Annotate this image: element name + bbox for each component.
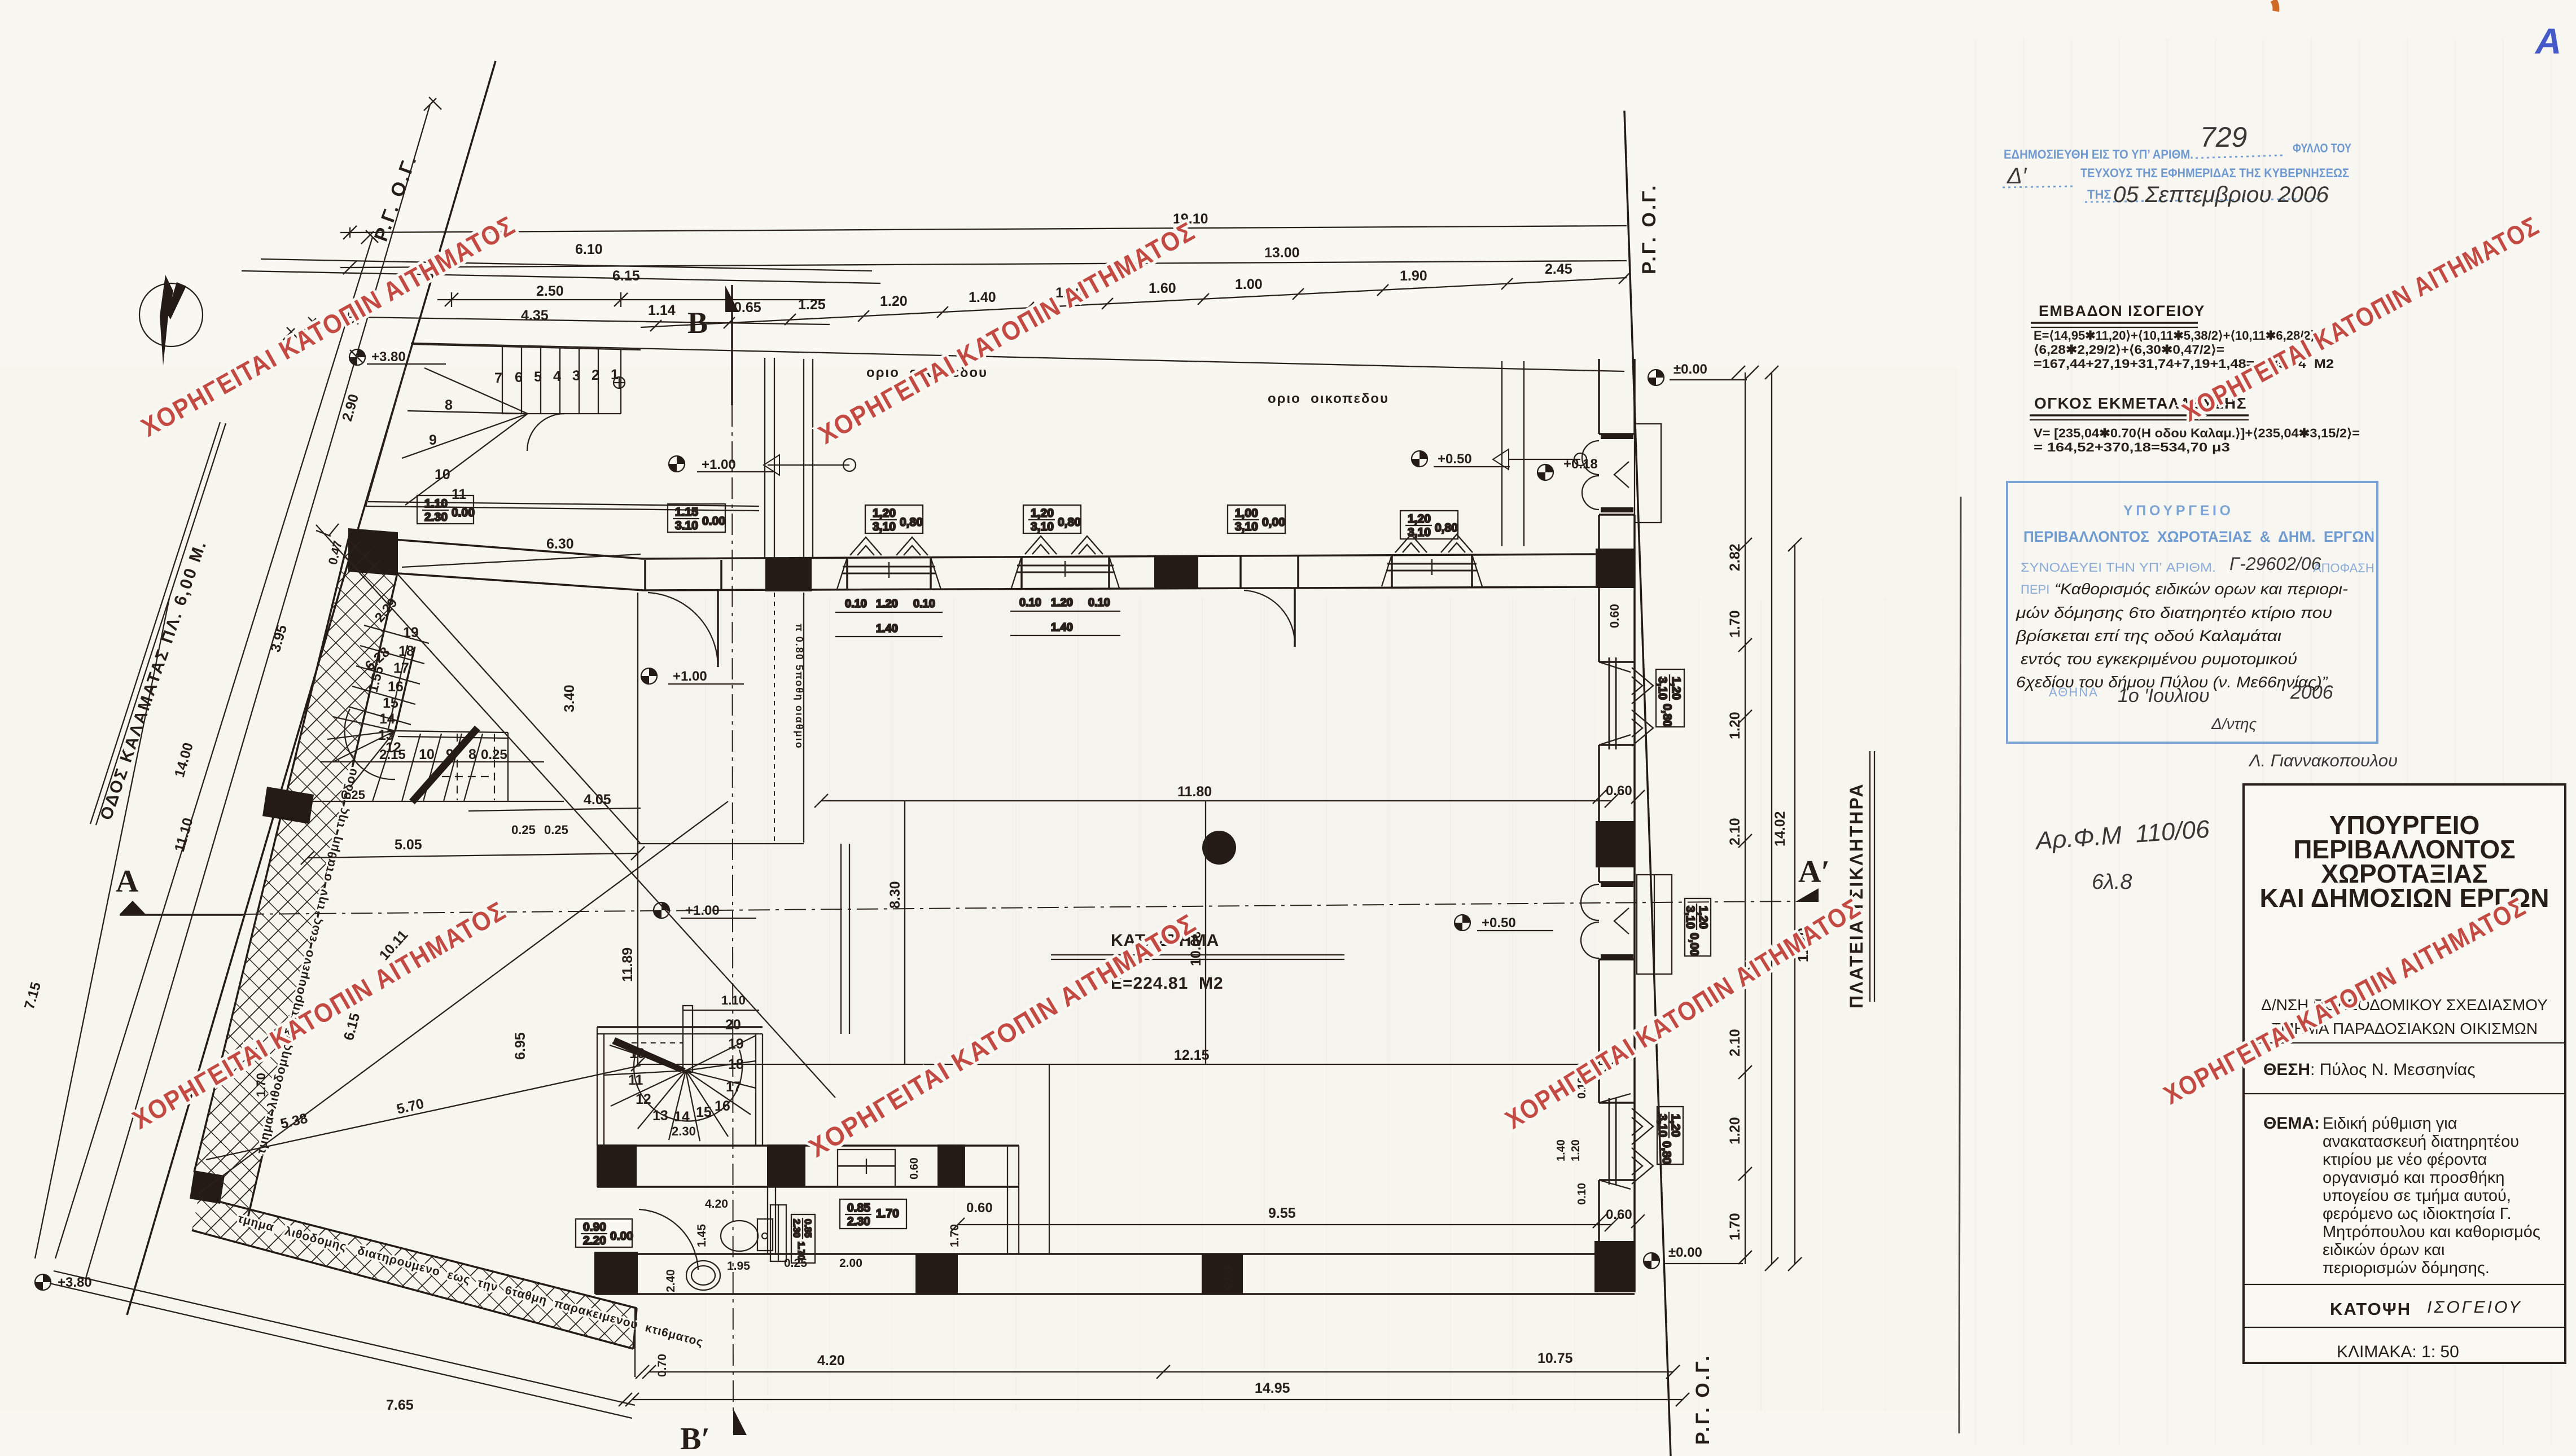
- svg-text:0.10: 0.10: [1576, 1183, 1588, 1205]
- top wall inner line: [398, 573, 1599, 590]
- corridor lower dashed + text: [774, 593, 775, 843]
- svg-text:12: 12: [636, 1091, 651, 1107]
- svg-text:9: 9: [429, 432, 437, 448]
- svg-text:Λ. Γιαννακοπουλου: Λ. Γιαννακοπουλου: [2248, 751, 2398, 770]
- stair top edge along boundary: [412, 344, 641, 350]
- svg-text:0.25: 0.25: [511, 823, 536, 837]
- svg-text:2.30: 2.30: [672, 1124, 696, 1138]
- svg-text:0,80: 0,80: [1660, 1141, 1673, 1164]
- pier top-left corner (black): [348, 528, 398, 576]
- svg-text:0,80: 0,80: [900, 516, 923, 529]
- stair right edge: [620, 349, 621, 414]
- svg-text:6.10: 6.10: [575, 242, 603, 257]
- svg-text:ΚΛΙΜΑΚΑ: 1: 50: ΚΛΙΜΑΚΑ: 1: 50: [2337, 1343, 2459, 1361]
- svg-text:1,20: 1,20: [1697, 906, 1710, 929]
- pier slanted wall bottom (black): [190, 1170, 225, 1204]
- level marker +3.80 bottom-left: [35, 1274, 51, 1290]
- step 1 circle mark: [614, 377, 625, 388]
- svg-text:0.10: 0.10: [1088, 597, 1110, 609]
- door R1 threshold bars: [1601, 434, 1633, 439]
- svg-text:⟨6,28✱2,29/2⟩+⟨6,30✱0,47/2⟩=: ⟨6,28✱2,29/2⟩+⟨6,30✱0,47/2⟩=: [2034, 343, 2224, 357]
- svg-text:1,20: 1,20: [1669, 1114, 1682, 1137]
- svg-text:1.40: 1.40: [876, 622, 898, 635]
- handwritten decision text: [2016, 580, 2348, 691]
- bottom wall outer line: [595, 1293, 1635, 1295]
- lower flight mid line: [320, 761, 544, 762]
- svg-text:1.20: 1.20: [1570, 1139, 1582, 1161]
- W1 dims 0.10/1.20/0.10 and 1.40: [835, 598, 943, 637]
- bottom stone wall band - inner line: [192, 1230, 633, 1349]
- svg-text:2006: 2006: [2290, 682, 2333, 703]
- stair lower landing line: [366, 506, 759, 511]
- svg-text:17: 17: [393, 660, 409, 676]
- section cut heavy bar: [412, 728, 477, 802]
- svg-text:2.30: 2.30: [791, 1219, 802, 1238]
- interior dim line 11.80: [821, 800, 1611, 801]
- svg-text:μών δόμησης 6το διατηρητέο: μών δόμησης 6το διατηρητέο κτίριο πο…: [2016, 604, 2332, 621]
- svg-text:0.90: 0.90: [583, 1221, 606, 1234]
- svg-text:18: 18: [398, 643, 414, 659]
- svg-text:3,10: 3,10: [1656, 677, 1669, 700]
- level marker +3.80 top: [349, 349, 365, 365]
- svg-text:6.15: 6.15: [612, 268, 640, 284]
- WC top wall band: [597, 1144, 1019, 1147]
- dim 19.10 line: [350, 226, 1627, 233]
- svg-text:4.05: 4.05: [584, 792, 611, 808]
- level marker +1.00 lower: [654, 902, 669, 918]
- svg-text:A: A: [2534, 21, 2561, 62]
- svg-text:3,10: 3,10: [1656, 1114, 1669, 1137]
- svg-text:8: 8: [445, 397, 453, 413]
- svg-text:1.70: 1.70: [254, 1073, 268, 1097]
- boxed label 1.10/2.30 0.00 (entrance): [417, 495, 475, 524]
- interior stair flight 12-19: right edge double line: [388, 645, 408, 729]
- level marker +0.18: [1537, 464, 1553, 480]
- WC pier top-mid (black): [767, 1144, 805, 1187]
- treads upper flight: [348, 625, 429, 725]
- svg-text:0.25: 0.25: [784, 1257, 807, 1270]
- winder fan lower corner: [327, 717, 395, 787]
- right plot line R.G. O.G.: [1624, 111, 1671, 1456]
- svg-text:1.45: 1.45: [695, 1224, 708, 1247]
- svg-text:11: 11: [628, 1072, 643, 1088]
- boxed label rotated 0.85/2.30 1.70 small: [791, 1214, 815, 1263]
- svg-text:ΑΠΟΦΑΣΗ: ΑΠΟΦΑΣΗ: [2313, 561, 2375, 575]
- boxed label W R2 rotated: [1656, 1107, 1683, 1164]
- step numbers: [378, 625, 419, 756]
- vertical dim 8.30: [904, 801, 905, 1064]
- fixture right rects: [770, 1205, 786, 1261]
- site boundary lower-left to corner: [54, 1271, 635, 1405]
- corridor walls above entrance: [765, 358, 813, 559]
- dashed under-stair void: [429, 734, 494, 800]
- svg-text:Ρ.Γ. Ο.Γ.: Ρ.Γ. Ο.Γ.: [1692, 1354, 1714, 1445]
- WC pier top-left (black): [597, 1144, 637, 1187]
- svg-text:14: 14: [674, 1109, 690, 1125]
- pier bottom wall 2 (black): [1202, 1254, 1243, 1294]
- corridor entry arrow: [768, 464, 849, 466]
- window W3 in top wall: [1382, 534, 1482, 586]
- svg-text:εντός του εγκεκριμένου ρυμοτ: εντός του εγκεκριμένου ρυμοτομικού: [2021, 650, 2297, 668]
- svg-text:3,10: 3,10: [873, 520, 896, 533]
- svg-text:14.02: 14.02: [1772, 811, 1788, 847]
- sink: [686, 1261, 720, 1290]
- left slanted stone wall - outer line: [194, 530, 351, 1172]
- svg-text:10: 10: [419, 747, 435, 762]
- boxed label 0.90/2.20 0.00: [576, 1219, 633, 1247]
- svg-text:ΠΕΡΙΒΑΛΛΟΝΤΟΣ ΧΩΡΟΤΑΞΙΑΣ &: ΠΕΡΙΒΑΛΛΟΝΤΟΣ ΧΩΡΟΤΑΞΙΑΣ & ΔΗΜ. ΕΡΓΩΝ: [2023, 528, 2375, 545]
- door R1 (double leaf) top right: [1582, 441, 1629, 510]
- svg-text:0.60: 0.60: [1607, 604, 1622, 628]
- svg-text:+1.00: +1.00: [702, 457, 736, 472]
- WC door arc: [639, 1209, 698, 1270]
- level marker +0.50 center: [1455, 915, 1470, 931]
- svg-text:4: 4: [553, 369, 561, 384]
- svg-text:βρίσκεται επί της οδού Καλα: βρίσκεται επί της οδού Καλαμάται: [2016, 627, 2281, 644]
- title block box: [2244, 784, 2565, 1363]
- level marker +-0.00 bottom right: [1644, 1253, 1659, 1269]
- svg-text:2.10: 2.10: [1727, 1029, 1743, 1056]
- svg-text:14: 14: [379, 711, 395, 727]
- toilet: [721, 1221, 758, 1251]
- vertical dim 10.00: [1205, 801, 1206, 1064]
- external stair top-left: left edge: [366, 345, 412, 506]
- svg-text:8.30: 8.30: [887, 881, 903, 909]
- svg-text:0.60: 0.60: [1606, 783, 1632, 799]
- dim 5.05: [308, 853, 638, 858]
- svg-text:0.25: 0.25: [341, 788, 365, 802]
- black wedge cut mark: [612, 1037, 686, 1072]
- boxed label 0.85/2.30 1.70: [840, 1199, 906, 1229]
- left slanted stone wall - inner line: [247, 576, 397, 1223]
- svg-text:5.05: 5.05: [395, 837, 422, 853]
- pier top-right corner (black): [1596, 549, 1635, 588]
- svg-text:Μητρόπουλου και καθορισμός: Μητρόπουλου και καθορισμός: [2323, 1223, 2540, 1241]
- svg-text:3: 3: [572, 368, 580, 384]
- window W2 in top wall: [1011, 536, 1119, 588]
- svg-text:0.10: 0.10: [845, 598, 867, 610]
- svg-text:7.65: 7.65: [386, 1397, 414, 1413]
- svg-text:ΘΕΜΑ:: ΘΕΜΑ:: [2263, 1114, 2320, 1133]
- svg-text:ΤΗΣ: ΤΗΣ: [2087, 187, 2111, 201]
- right wall jambs: [1599, 434, 1635, 1180]
- svg-text:1.40: 1.40: [969, 290, 996, 305]
- bottom band end cap: [633, 1308, 637, 1349]
- boxed label 1,20/3,10 0,80 (W3): [1400, 511, 1458, 539]
- svg-text:6.30: 6.30: [546, 536, 574, 552]
- svg-text:ΠΕΡΙ: ΠΕΡΙ: [2021, 582, 2049, 597]
- right edge vertical of flight zone: [507, 733, 509, 801]
- window R2 in right wall: [1599, 1094, 1653, 1189]
- svg-text:ΕΔΗΜΟΣΙΕΥΘΗ ΕΙΣ ΤΟ ΥΠ’ ΑΡΙΘΜ.: ΕΔΗΜΟΣΙΕΥΘΗ ΕΙΣ ΤΟ ΥΠ’ ΑΡΙΘΜ.: [2004, 147, 2193, 161]
- svg-text:“Καθορισμός ειδικών ορων και: “Καθορισμός ειδικών ορων και περιορι-: [2054, 580, 2348, 598]
- lower flight top edge: [395, 731, 508, 733]
- svg-text:14.95: 14.95: [1255, 1380, 1290, 1396]
- svg-text:17: 17: [726, 1079, 742, 1095]
- dim 4.05: [468, 808, 641, 811]
- svg-text:3.40: 3.40: [562, 685, 577, 712]
- stair straight steps 1-7: [502, 347, 598, 414]
- survey diagonal 1: [316, 525, 835, 1098]
- street dim ticks top: [282, 97, 441, 362]
- bottom stone wall hatch: [192, 1196, 637, 1349]
- svg-text:0,80: 0,80: [1661, 704, 1673, 727]
- svg-text:0,00: 0,00: [1688, 933, 1701, 956]
- ministry stamp box (blue): [2007, 482, 2377, 743]
- pier top wall 2 (black): [1154, 555, 1198, 588]
- WC right wall: [1007, 1146, 1008, 1254]
- svg-text:1ο ′Ιουλιου: 1ο ′Ιουλιου: [2118, 685, 2210, 707]
- left slanted wall hatch: [194, 530, 397, 1223]
- page fold line right: [1959, 497, 1961, 1433]
- survey diagonal 4 (to top): [398, 574, 641, 844]
- stair flight lower edge: [502, 413, 621, 414]
- svg-text:Α: Α: [116, 864, 139, 899]
- top wall outer line: [350, 536, 1599, 559]
- svg-text:Ρ.Γ. Ο.Γ.: Ρ.Γ. Ο.Γ.: [1639, 183, 1660, 274]
- niche window in WC top wall: [838, 1150, 895, 1187]
- entrance door D1 leaf+arc: [648, 593, 718, 667]
- svg-text:1.70: 1.70: [876, 1207, 899, 1220]
- pier right wall B (black): [1594, 1241, 1635, 1292]
- right wall outer line: [1633, 359, 1636, 1292]
- winder walk-line arc: [634, 1050, 742, 1121]
- WC partition: [767, 1187, 768, 1254]
- svg-text:+3.80: +3.80: [371, 349, 406, 365]
- svg-text:2.30: 2.30: [847, 1215, 870, 1228]
- dashed up-line: [612, 1042, 683, 1043]
- level marker +1.00 upper: [669, 456, 685, 472]
- boxed label W R1 rotated: [1656, 669, 1684, 727]
- svg-text:+3.80: +3.80: [58, 1275, 92, 1290]
- boxed label door R2 rotated: [1684, 898, 1711, 956]
- svg-text:0.65: 0.65: [734, 300, 761, 315]
- svg-text:6: 6: [515, 370, 523, 385]
- svg-text:Α′: Α′: [1798, 854, 1830, 889]
- svg-text:= 164,52+370,18=534,70 μ3: = 164,52+370,18=534,70 μ3: [2034, 440, 2230, 454]
- small dim chain line with B: [641, 278, 1627, 327]
- svg-text:0,00: 0,00: [1262, 516, 1285, 529]
- svg-text:0.60: 0.60: [1606, 1207, 1632, 1222]
- svg-text:φερόμενο ως ιδιοκτησία Γ.: φερόμενο ως ιδιοκτησία Γ.: [2323, 1205, 2512, 1223]
- svg-text:0.00: 0.00: [702, 515, 725, 528]
- svg-text:3,10: 3,10: [1684, 906, 1697, 929]
- boxed label 1,00/3,10 0,00 (door D2): [1228, 505, 1285, 533]
- svg-text:0.60: 0.60: [1222, 1266, 1235, 1290]
- svg-text:π 0.80 5ποθη οιαθμιο: π 0.80 5ποθη οιαθμιο: [794, 624, 805, 749]
- vertical thin line mid shop: [1049, 1064, 1050, 1254]
- street parallel line 3: [55, 237, 373, 1258]
- WC pier top-right (black): [937, 1144, 965, 1187]
- bottom stair room: top wall double line: [597, 1026, 763, 1028]
- left edge: [597, 1027, 598, 1146]
- svg-text:0.70: 0.70: [656, 1354, 669, 1377]
- svg-text:ΕΜΒΑΔΟΝ ΙΣΟΓΕΙΟΥ: ΕΜΒΑΔΟΝ ΙΣΟΓΕΙΟΥ: [2039, 302, 2205, 319]
- svg-text:6λ.8: 6λ.8: [2092, 870, 2132, 894]
- svg-text:5: 5: [534, 369, 542, 385]
- svg-text:15: 15: [696, 1104, 712, 1120]
- svg-text:ανακατασκευή διατηρητέου: ανακατασκευή διατηρητέου: [2323, 1133, 2519, 1151]
- right vertical dim chain 1: [1745, 372, 1746, 1264]
- svg-text:+1.00: +1.00: [673, 669, 707, 684]
- door R2 (double leaf): [1581, 884, 1629, 958]
- svg-text:16: 16: [388, 679, 404, 695]
- dim 6.10 line: [261, 259, 872, 271]
- svg-text:13.00: 13.00: [1264, 245, 1300, 261]
- svg-text:ΦΥΛΛΟ ΤΟΥ: ΦΥΛΛΟ ΤΟΥ: [2293, 141, 2351, 155]
- svg-text:ειδικών όρων και: ειδικών όρων και: [2323, 1241, 2444, 1259]
- svg-text:Ε=⟨14,95✱11,20⟩+⟨10,11✱5,38/2⟩: Ε=⟨14,95✱11,20⟩+⟨10,11✱5,38/2⟩+⟨10,11✱6,…: [2034, 328, 2323, 343]
- right vertical dim chain 3 (11.20): [1794, 545, 1795, 1264]
- step numbers: [628, 1017, 744, 1125]
- dim 6.15 line: [242, 271, 880, 283]
- svg-text:0,80: 0,80: [1058, 516, 1081, 529]
- street parallel line 2: [86, 104, 430, 1278]
- svg-text:2.82: 2.82: [1727, 543, 1743, 571]
- winder arc: [345, 709, 395, 779]
- svg-text:1,00: 1,00: [1235, 507, 1258, 520]
- svg-text:υπογείου σε τμήμα αυτού,: υπογείου σε τμήμα αυτού,: [2323, 1187, 2511, 1205]
- svg-text:0,80: 0,80: [1435, 521, 1458, 534]
- svg-text:3,10: 3,10: [1408, 526, 1431, 539]
- window W1 in top wall: [837, 537, 941, 589]
- street leftmost dim line: [35, 598, 169, 1258]
- svg-text:+1.00: +1.00: [685, 903, 720, 918]
- survey diagonal 2: [199, 801, 728, 1194]
- svg-text:2.50: 2.50: [536, 283, 564, 299]
- horizontal line y1495 left part: [638, 843, 804, 844]
- svg-text:ΑΘΗΝΑ: ΑΘΗΝΑ: [2049, 685, 2099, 699]
- svg-text:11.89: 11.89: [620, 948, 636, 982]
- section line B-B' dash-dot: [732, 405, 733, 1411]
- svg-text:κτιρίου με νέο φέροντα: κτιρίου με νέο φέροντα: [2323, 1151, 2487, 1169]
- interior dim line 12.15: [638, 1064, 1611, 1065]
- pier right wall A (black): [1596, 821, 1635, 867]
- dim 4.35 line: [358, 317, 830, 324]
- right wall inner line: [1598, 359, 1600, 1254]
- svg-text:Β′: Β′: [680, 1422, 710, 1456]
- svg-text:3,10: 3,10: [1031, 520, 1054, 533]
- svg-text:19: 19: [403, 625, 419, 641]
- svg-text:6.95: 6.95: [512, 1032, 528, 1060]
- bottom stone wall band - outer line: [199, 1196, 637, 1308]
- svg-text:3.10: 3.10: [675, 519, 698, 532]
- svg-text:3,10: 3,10: [1235, 520, 1258, 533]
- svg-text:2.20: 2.20: [583, 1234, 606, 1247]
- svg-text:1,20: 1,20: [1408, 512, 1431, 525]
- svg-text:1.20: 1.20: [880, 293, 908, 309]
- svg-text:11.80: 11.80: [1177, 784, 1212, 800]
- dim 1.10 above stair: [683, 1010, 759, 1011]
- svg-text:1.95: 1.95: [727, 1260, 750, 1273]
- svg-text:ΙΣΟΓΕΙΟΥ: ΙΣΟΓΕΙΟΥ: [2427, 1298, 2522, 1317]
- svg-text:περιορισμών δόμησης.: περιορισμών δόμησης.: [2323, 1259, 2490, 1277]
- svg-text:0.60: 0.60: [966, 1200, 993, 1216]
- street plot line P.G. O.G. (main diagonal): [127, 61, 496, 1315]
- svg-text:1.70: 1.70: [1727, 610, 1743, 638]
- pier slanted wall mid (black): [262, 787, 314, 824]
- column (black dot): [1202, 831, 1236, 865]
- svg-text:729: 729: [2200, 121, 2247, 153]
- svg-text:2.40: 2.40: [664, 1269, 677, 1292]
- svg-text:+0.50: +0.50: [1438, 451, 1472, 467]
- svg-text:0.00: 0.00: [610, 1230, 633, 1243]
- dim 6.30 line over top wall: [402, 554, 641, 567]
- svg-text:12.15: 12.15: [1174, 1047, 1210, 1063]
- svg-text:1.10: 1.10: [424, 497, 448, 510]
- svg-text:Δ/ντης: Δ/ντης: [2211, 715, 2257, 733]
- svg-text:2: 2: [592, 367, 599, 383]
- svg-text:1.00: 1.00: [1235, 277, 1263, 292]
- svg-text:2.10: 2.10: [1727, 818, 1743, 845]
- svg-text:05 Σεπτεμβριου 2006: 05 Σεπτεμβριου 2006: [2113, 182, 2329, 207]
- vertical dim 11.89: [637, 593, 638, 1064]
- svg-text:1.15: 1.15: [675, 506, 698, 519]
- svg-text:20: 20: [725, 1017, 741, 1033]
- right vertical dim chain 2 (14.02): [1771, 372, 1772, 1264]
- door D2 leaf+arc: [1244, 590, 1295, 647]
- svg-text:+0.50: +0.50: [1482, 915, 1516, 931]
- svg-text:9.55: 9.55: [1268, 1205, 1296, 1221]
- svg-text:4.20: 4.20: [705, 1198, 728, 1211]
- orange pen stroke top: [2273, 0, 2276, 11]
- window R1 in right wall: [1599, 657, 1653, 749]
- level marker +0.50 left: [1412, 451, 1427, 467]
- svg-text:2.45: 2.45: [1545, 261, 1572, 277]
- newel wall center: [683, 1006, 693, 1072]
- title block: ministry name: [2259, 810, 2549, 913]
- svg-text:Ειδική ρύθμιση για: Ειδική ρύθμιση για: [2323, 1115, 2457, 1133]
- svg-text:V= [235,04✱0.70⟨Η οδου Καλαμ.⟩: V= [235,04✱0.70⟨Η οδου Καλαμ.⟩]+⟨235,04✱…: [2034, 426, 2360, 440]
- svg-text:19: 19: [728, 1036, 744, 1052]
- svg-text:8: 8: [468, 747, 476, 762]
- svg-text:2.00: 2.00: [839, 1257, 862, 1270]
- svg-text:2.30: 2.30: [424, 511, 448, 524]
- section line A-A' dash-dot: [243, 901, 1795, 914]
- boxed label 1.15/3.10 0.00: [668, 504, 725, 532]
- plot boundary top line (orio oikopedou): [411, 343, 1624, 371]
- svg-text:1,20: 1,20: [1031, 507, 1054, 520]
- pier bottom wall WC corner (black): [594, 1252, 638, 1294]
- svg-text:±0.00: ±0.00: [1673, 362, 1707, 377]
- svg-text:ΘΕΣΗ: Πύλος Ν. Μεσσηνίας: ΘΕΣΗ: Πύλος Ν. Μεσσηνίας: [2263, 1060, 2476, 1079]
- svg-text:1.40: 1.40: [1555, 1139, 1567, 1161]
- bottom dim line 4.20/10.75: [649, 1371, 1673, 1372]
- lower flight bottom edge: [312, 801, 564, 802]
- svg-text:0.85: 0.85: [847, 1201, 870, 1214]
- svg-text:4.20: 4.20: [817, 1353, 845, 1369]
- svg-text:οριο οικοπεδου: οριο οικοπεδου: [1268, 391, 1389, 406]
- wall segment above stair right: [840, 844, 842, 1034]
- stair step numbers: [429, 367, 619, 502]
- svg-text:1.25: 1.25: [798, 297, 826, 313]
- stair winders 8-11 radial: [402, 368, 528, 505]
- svg-text:1,20: 1,20: [873, 507, 896, 520]
- dim 9.55 line: [958, 1224, 1611, 1225]
- svg-text:οργανισμό και προσθήκη: οργανισμό και προσθήκη: [2323, 1169, 2504, 1187]
- title block: directorate: [2261, 996, 2548, 1037]
- pier bottom wall 1 (black): [915, 1254, 958, 1294]
- level marker +1.00 mid: [641, 668, 657, 684]
- lower flight treads: [373, 731, 483, 801]
- svg-text:ΣΥΝΟΔΕΥΕΙ ΤΗΝ ΥΠ’ ΑΡΙΘΜ.: ΣΥΝΟΔΕΥΕΙ ΤΗΝ ΥΠ’ ΑΡΙΘΜ.: [2021, 560, 2216, 574]
- svg-text:1,20: 1,20: [1670, 677, 1683, 700]
- svg-text:0.25: 0.25: [544, 823, 568, 837]
- dim 13.00 line: [350, 261, 1627, 267]
- street edge double line (ODOS KALAMATAS): [96, 423, 226, 825]
- boxed label 1,20/3,10 0,80 (W2): [1023, 505, 1081, 533]
- svg-text:0.60: 0.60: [908, 1157, 921, 1179]
